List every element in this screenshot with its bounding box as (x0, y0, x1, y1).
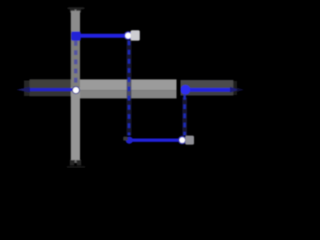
wire: bottom negative segment (129, 138, 182, 141)
wire: dashed jump at t=0 (74, 41, 77, 87)
wire: dashed jump column at t=1/2 (127, 41, 132, 136)
x-axis left arrowhead strip (24, 81, 30, 97)
x-axis light band lower (80, 90, 177, 98)
node D filled (1,0) (181, 85, 191, 95)
node B open (1/2,1) (124, 31, 133, 40)
wire: left zero segment (28, 88, 73, 91)
label blob near node F (185, 136, 194, 145)
wire: dashed jump column at t=1 (182, 98, 187, 136)
x-axis right arrowhead strip (233, 81, 237, 95)
y-axis bar upper (71, 11, 80, 32)
node F open (1,-1) (178, 136, 186, 144)
node C open (0,0) (72, 86, 80, 94)
y-axis bottom arrowhead (67, 160, 85, 168)
wire: right zero segment (185, 88, 230, 92)
wire: left blue arrowhead taper (17, 87, 31, 93)
node E filled (1/2,-1) (126, 137, 133, 144)
y-axis top arrowhead (68, 7, 85, 12)
wire: top positive segment (76, 34, 129, 38)
y-axis bar lower (71, 87, 80, 160)
label blob near node B (131, 30, 140, 40)
x-axis right dark band lower (181, 90, 234, 96)
wire: dashed jump at t=1/2 (128, 41, 131, 136)
label blob near node E (123, 137, 128, 141)
wire: right blue arrowhead taper (230, 87, 244, 93)
x-axis left dark band upper (30, 79, 73, 90)
x-axis left dark band lower (30, 90, 73, 96)
x-axis light band upper (80, 79, 177, 90)
wire: dashed jump at t=1 (183, 95, 186, 136)
x-axis right dark band upper (181, 80, 234, 90)
y-axis bar dashed section (71, 32, 80, 87)
node A filled (0,1) (71, 32, 81, 41)
